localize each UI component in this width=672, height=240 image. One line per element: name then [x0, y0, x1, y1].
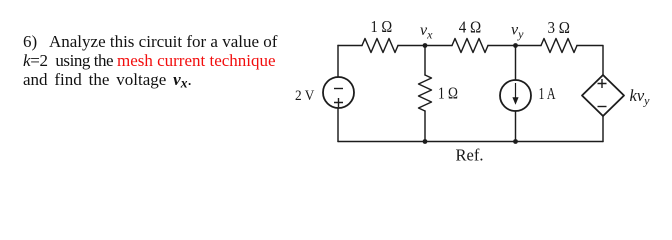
node vy dot — [513, 43, 518, 48]
svg-text:3 Ω: 3 Ω — [548, 18, 571, 37]
voltage source V1 2V circle — [323, 77, 354, 108]
resistor 1ohm vertical — [419, 75, 432, 111]
wire node vy down — [515, 46, 517, 81]
node vx dot — [423, 43, 428, 48]
bottom node dot right — [513, 139, 518, 144]
resistor 3ohm — [541, 39, 577, 53]
svg-text:vx: vx — [420, 22, 433, 42]
svg-text:kvy: kvy — [630, 86, 651, 108]
wire below current source — [515, 111, 517, 142]
current source I1 1A circle — [500, 80, 531, 111]
problem statement text — [23, 32, 308, 93]
wire left-top — [337, 46, 339, 78]
wire bottom — [338, 141, 603, 143]
svg-text:1 Ω: 1 Ω — [438, 84, 458, 103]
svg-text:1 A: 1 A — [539, 84, 556, 103]
wire right-bottom — [602, 116, 604, 142]
dependent source diamond kvy — [582, 75, 624, 116]
current source arrow — [512, 83, 518, 105]
svg-text:4 Ω: 4 Ω — [459, 18, 482, 37]
svg-text:Ref.: Ref. — [456, 146, 484, 165]
diamond polarity marks — [598, 79, 607, 107]
wire top-right — [577, 46, 603, 76]
wire below vertical resistor — [424, 111, 426, 142]
voltage source polarity marks — [334, 89, 343, 108]
resistor R1 1ohm top — [362, 39, 398, 53]
resistor 4ohm — [452, 39, 488, 53]
svg-text:2 V: 2 V — [295, 88, 314, 104]
wire node vx down — [424, 46, 426, 76]
wire top between R1 and 4ohm — [398, 45, 452, 47]
svg-text:vy: vy — [511, 22, 524, 42]
wire top between 4ohm and 3ohm — [488, 45, 541, 47]
svg-text:1 Ω: 1 Ω — [371, 17, 393, 36]
wire left-bottom — [337, 108, 339, 142]
wire top-left — [338, 45, 362, 47]
bottom node dot left — [423, 139, 428, 144]
